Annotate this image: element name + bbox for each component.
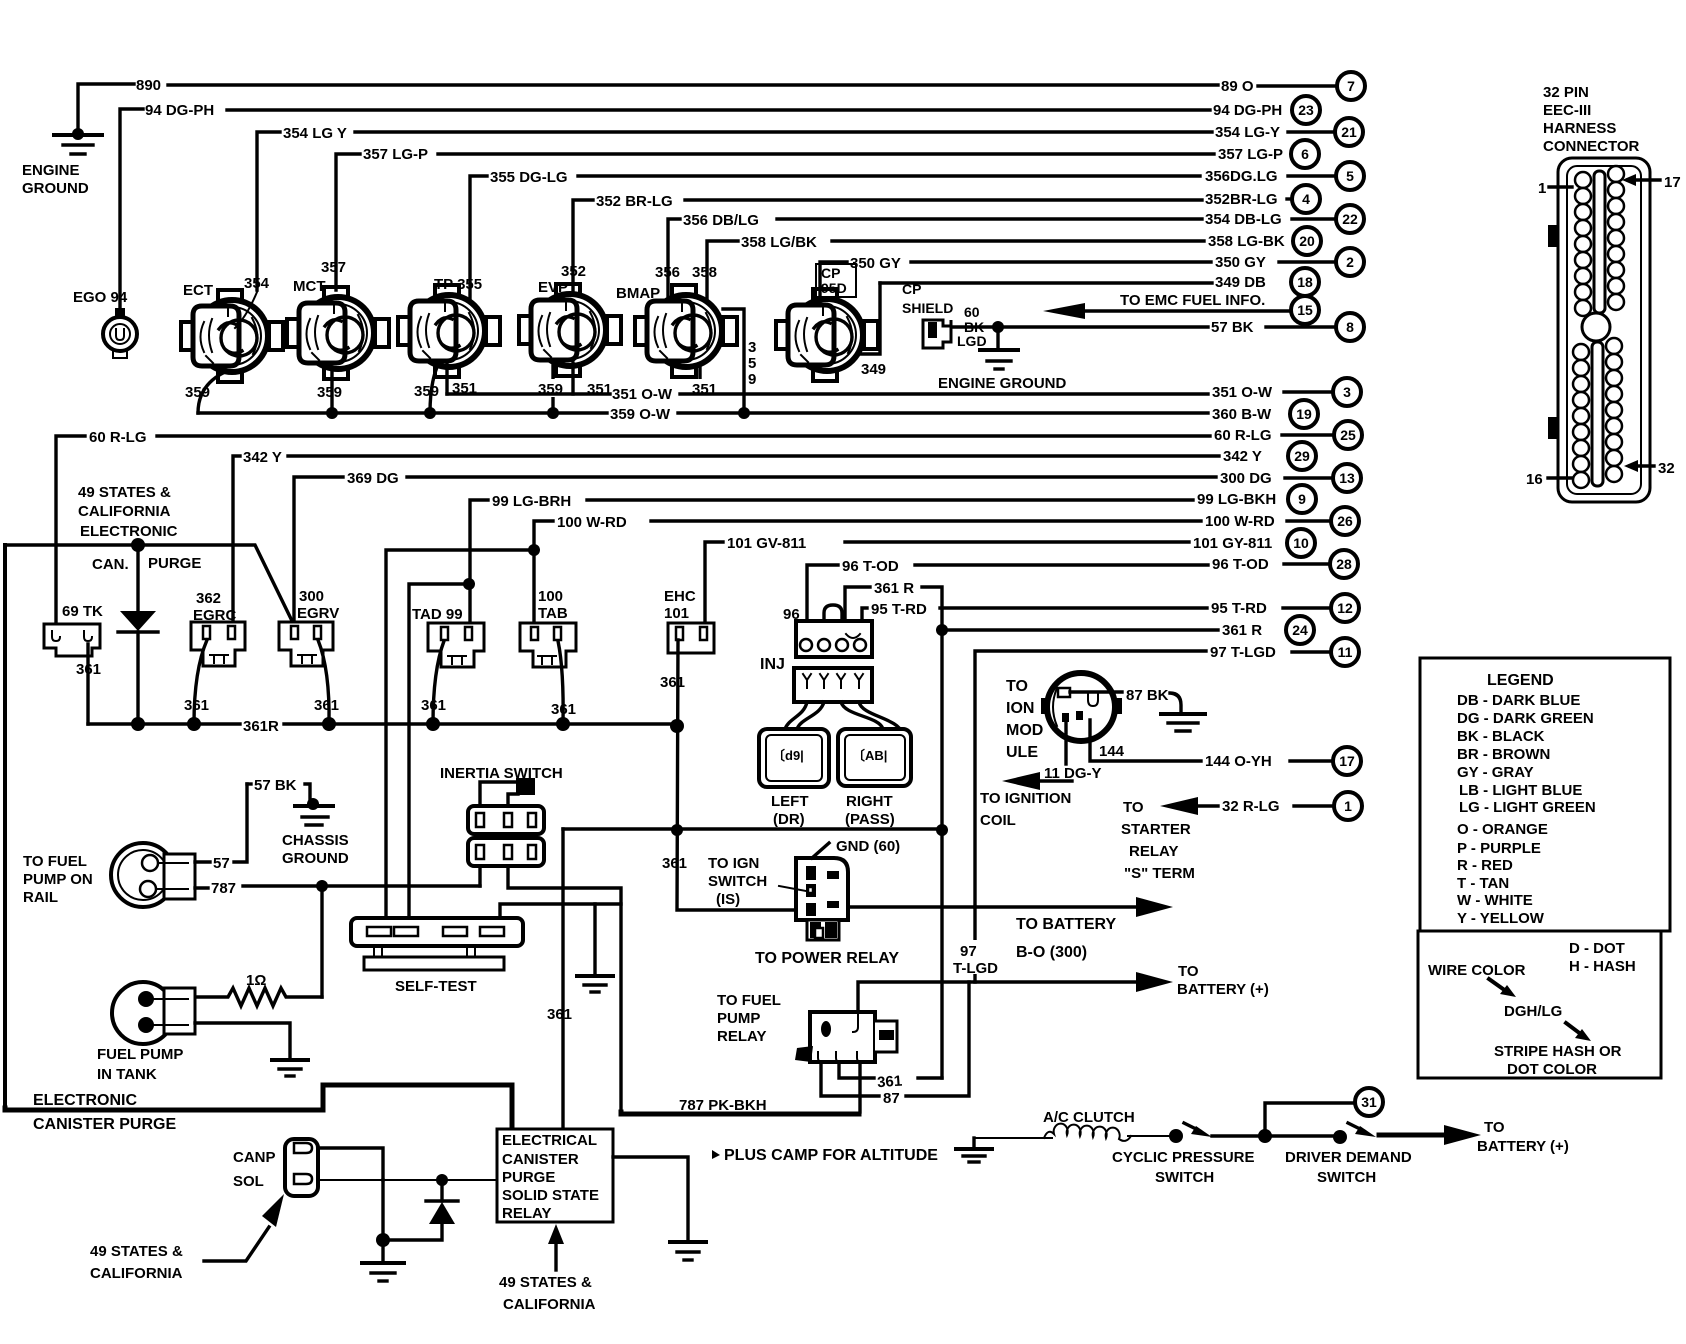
pin label 1 [1538, 180, 1572, 197]
label CAN. PURGE [92, 555, 201, 573]
connector EEC body [1548, 158, 1650, 502]
svg-text:CHASSIS: CHASSIS [282, 832, 349, 849]
label D-DOT H-HASH [1569, 940, 1636, 975]
wire inertia pin2 to 787 [508, 866, 621, 1112]
switch cyclic pressure [1128, 1123, 1258, 1143]
svg-text:〔AB|: 〔AB| [852, 748, 887, 763]
svg-text:359 O-W: 359 O-W [610, 406, 671, 423]
switch inertia upper [468, 778, 544, 834]
wire relay 87 [821, 982, 969, 1096]
ground tank [272, 1060, 308, 1076]
label TO STARTER RELAY S TERM [1121, 799, 1195, 882]
svg-text:PUMP: PUMP [717, 1010, 760, 1027]
connector TAB [520, 623, 576, 667]
wire box to ground [613, 1157, 688, 1240]
svg-text:352: 352 [561, 263, 586, 280]
svg-text:357: 357 [321, 259, 346, 276]
svg-text:352BR-LG: 352BR-LG [1205, 191, 1278, 208]
label 49 STATES CALIFORNIA bottom [499, 1274, 596, 1313]
label FUEL PUMP IN TANK [97, 1046, 183, 1083]
switch driver demand [1265, 1123, 1376, 1144]
wire 356 DB/LG [668, 219, 1202, 300]
arrow TO STARTER RELAY [1160, 797, 1218, 815]
wire 787 PK-BKH thick [621, 1112, 859, 1114]
label 300 EGRV [297, 588, 339, 622]
selftest body [351, 918, 523, 970]
svg-text:57 BK: 57 BK [1211, 319, 1254, 336]
wire EVP 359 [551, 366, 554, 413]
wire BMAP 351 [698, 368, 701, 394]
wire 101 GV-811 [705, 542, 1189, 630]
wire relay 787 [858, 1062, 861, 1112]
svg-text:EEC-III: EEC-III [1543, 102, 1591, 119]
svg-text:369 DG: 369 DG [347, 470, 399, 487]
svg-text:5: 5 [1346, 168, 1354, 184]
svg-text:(DR): (DR) [773, 811, 805, 828]
svg-text:101 GY-811: 101 GY-811 [1193, 535, 1272, 552]
svg-text:PLUS CAMP FOR ALTITUDE: PLUS CAMP FOR ALTITUDE [724, 1147, 938, 1164]
svg-text:360 B-W: 360 B-W [1212, 406, 1272, 423]
svg-text:SWITCH: SWITCH [1155, 1169, 1214, 1186]
svg-text:354 LG-Y: 354 LG-Y [1215, 124, 1280, 141]
svg-text:359: 359 [414, 383, 439, 400]
bus gnd60 [563, 824, 948, 836]
wire 787 [195, 880, 480, 997]
svg-text:361: 361 [551, 701, 576, 718]
wire ac clutch [974, 1137, 1052, 1139]
wire TAB 361 [558, 641, 563, 724]
svg-text:26: 26 [1337, 513, 1353, 529]
wire 100 W-RD [534, 521, 1201, 628]
svg-text:144: 144 [1099, 743, 1125, 760]
connector EGRV [279, 622, 333, 666]
svg-text:94 DG-PH: 94 DG-PH [1213, 102, 1282, 119]
svg-text:10: 10 [1293, 535, 1309, 551]
svg-text:60 R-LG: 60 R-LG [1214, 427, 1272, 444]
diode CANP [118, 545, 158, 724]
wire EGRV 361 [318, 640, 329, 724]
connector EEC pins upper [1575, 166, 1624, 316]
svg-text:362: 362 [196, 590, 221, 607]
svg-text:CP: CP [902, 281, 921, 297]
svg-text:361: 361 [314, 697, 339, 714]
svg-text:351 O-W: 351 O-W [612, 386, 673, 403]
svg-text:CALIFORNIA: CALIFORNIA [503, 1296, 596, 1313]
svg-text:CONNECTOR: CONNECTOR [1543, 138, 1640, 155]
svg-text:BK - BLACK: BK - BLACK [1457, 728, 1545, 745]
pin circle 31 [1355, 1088, 1383, 1116]
svg-text:"S" TERM: "S" TERM [1124, 865, 1195, 882]
svg-text:361 R: 361 R [874, 580, 914, 597]
svg-text:357 LG-P: 357 LG-P [1218, 146, 1283, 163]
svg-text:ECT: ECT [183, 282, 213, 299]
wire 69TK 361 [86, 644, 89, 724]
svg-text:EVP: EVP [538, 279, 568, 296]
svg-text:(IS): (IS) [716, 891, 740, 908]
pin label 17 [1622, 174, 1681, 191]
label DRIVER DEMAND SWITCH [1285, 1149, 1412, 1186]
connector EGRC [191, 622, 245, 666]
label CYCLIC PRESSURE SWITCH [1112, 1149, 1255, 1186]
svg-text:D - DOT: D - DOT [1569, 940, 1625, 957]
svg-text:20: 20 [1299, 233, 1315, 249]
svg-text:RELAY: RELAY [1129, 843, 1178, 860]
label STRIPE HASH OR DOT COLOR [1494, 1043, 1622, 1078]
pin row 354 DB-LG / pin 22 [1205, 205, 1364, 233]
wire 60 R-LG [56, 436, 1210, 622]
svg-text:EHC: EHC [664, 588, 696, 605]
svg-text:MCT: MCT [293, 278, 326, 295]
svg-text:358 LG/BK: 358 LG/BK [741, 234, 817, 251]
svg-text:355 DG-LG: 355 DG-LG [490, 169, 568, 186]
svg-text:TO IGNITION: TO IGNITION [980, 790, 1071, 807]
sensor EGO 94 [103, 308, 137, 358]
svg-text:3: 3 [748, 339, 756, 356]
svg-text:RIGHT: RIGHT [846, 793, 893, 810]
connector fuel rail [111, 843, 195, 907]
svg-text:95 T-RD: 95 T-RD [871, 601, 927, 618]
svg-text:361 R: 361 R [1222, 622, 1262, 639]
wire TP 351 [445, 363, 448, 394]
svg-text:ELECTRICAL: ELECTRICAL [502, 1132, 597, 1149]
arrow TO IGNITION COIL [1002, 772, 1072, 790]
wire 361 to relay box [561, 829, 564, 1128]
bus 359 O-W [198, 407, 1208, 419]
svg-text:EGRV: EGRV [297, 605, 339, 622]
svg-text:356DG.LG: 356DG.LG [1205, 168, 1278, 185]
svg-text:TO: TO [1123, 799, 1144, 816]
label EHC 101 [664, 588, 696, 622]
svg-text:49 STATES &: 49 STATES & [78, 484, 171, 501]
svg-text:6: 6 [1301, 146, 1309, 162]
svg-text:BATTERY (+): BATTERY (+) [1477, 1138, 1569, 1155]
svg-text:361: 361 [76, 661, 101, 678]
svg-text:EGO 94: EGO 94 [73, 289, 128, 306]
svg-text:TP 355: TP 355 [434, 276, 482, 293]
wire 349 DB [861, 283, 1212, 354]
label TO BATTERY right [1477, 1119, 1569, 1155]
svg-text:1: 1 [1344, 798, 1352, 814]
svg-text:89 O: 89 O [1221, 78, 1254, 95]
svg-text:358 LG-BK: 358 LG-BK [1208, 233, 1285, 250]
svg-text:CALIFORNIA: CALIFORNIA [78, 503, 171, 520]
svg-text:TO BATTERY: TO BATTERY [1016, 916, 1116, 933]
svg-text:361: 361 [421, 697, 446, 714]
svg-text:MOD: MOD [1006, 722, 1043, 739]
svg-text:GROUND: GROUND [22, 180, 89, 197]
module ION [1041, 673, 1122, 741]
pin label 16 [1526, 471, 1572, 488]
svg-text:EGRC: EGRC [193, 607, 237, 624]
svg-text:361R: 361R [243, 718, 279, 735]
connector EHC [668, 623, 714, 653]
bus 351 O-W [447, 392, 1208, 395]
label ELECTRONIC CANISTER PURGE [33, 1092, 176, 1133]
svg-text:300 DG: 300 DG [1220, 470, 1272, 487]
svg-text:CAN.: CAN. [92, 556, 129, 573]
ground box right [670, 1242, 706, 1260]
label 49 STATES CALIFORNIA ELECTRONIC [78, 484, 178, 540]
ground selftest [577, 904, 613, 992]
connector INJ bottom [794, 668, 872, 702]
svg-text:H - HASH: H - HASH [1569, 958, 1636, 975]
wire 350 GY [820, 262, 1211, 308]
switch IGN [796, 858, 848, 940]
svg-text:ULE: ULE [1006, 744, 1038, 761]
svg-text:1: 1 [1538, 180, 1546, 197]
svg-text:359: 359 [185, 384, 210, 401]
wire inj2 [797, 702, 824, 729]
svg-text:GROUND: GROUND [282, 850, 349, 867]
pin row 95 T-RD / pin 12 [1211, 594, 1359, 622]
svg-text:356: 356 [655, 264, 680, 281]
svg-text:300: 300 [299, 588, 324, 605]
svg-text:57 BK: 57 BK [254, 777, 297, 794]
svg-text:354 LG Y: 354 LG Y [283, 125, 347, 142]
svg-text:GND (60): GND (60) [836, 838, 900, 855]
sensor CP [776, 289, 878, 381]
pin row 349 DB / pin 18 [1215, 268, 1319, 296]
svg-text:O - ORANGE: O - ORANGE [1457, 821, 1548, 838]
label 32 PIN EEC-III HARNESS CONNECTOR [1543, 84, 1640, 155]
pin row 358 LG-BK / pin 20 [1208, 227, 1321, 255]
svg-text:SELF-TEST: SELF-TEST [395, 978, 477, 995]
svg-text:SOLID STATE: SOLID STATE [502, 1187, 599, 1204]
wire canister purge bus [5, 538, 294, 625]
wire TAD 361 [433, 641, 444, 724]
svg-text:29: 29 [1294, 448, 1310, 464]
connector CANP SOL [285, 1139, 318, 1196]
legend box 2 [1418, 931, 1661, 1078]
svg-text:25: 25 [1340, 427, 1356, 443]
label ENGINE GROUND [22, 162, 89, 197]
legend entries [1457, 692, 1596, 927]
svg-text:15: 15 [1297, 302, 1313, 318]
pin row 99 LG-BKH / pin 9 [1197, 485, 1316, 513]
pin row 60 R-LG / pin 25 [1214, 421, 1362, 449]
svg-text:97: 97 [960, 943, 977, 960]
injector LEFT DR [759, 729, 829, 787]
svg-text:354: 354 [244, 275, 270, 292]
svg-text:RELAY: RELAY [717, 1028, 766, 1045]
svg-text:357 LG-P: 357 LG-P [363, 146, 428, 163]
connector EEC center bar upper [1594, 171, 1605, 313]
svg-text:TAB: TAB [538, 605, 568, 622]
svg-text:352 BR-LG: 352 BR-LG [596, 193, 673, 210]
sensor MCT [287, 287, 389, 379]
svg-text:CP: CP [821, 265, 840, 281]
inductor AC CLUTCH [1044, 1124, 1131, 1141]
diode canp [383, 1180, 458, 1240]
connector EEC pins lower [1573, 338, 1622, 488]
wire 96 T-OD [807, 565, 1208, 640]
wire 354 LG Y [257, 132, 1212, 290]
svg-text:57: 57 [213, 855, 230, 872]
wire 890 [78, 84, 1218, 135]
svg-text:2: 2 [1346, 254, 1354, 270]
label TO ION MODULE [1006, 678, 1043, 761]
label 351 EVP [584, 379, 618, 398]
svg-text:CANISTER PURGE: CANISTER PURGE [33, 1116, 176, 1133]
svg-text:TO: TO [1484, 1119, 1505, 1136]
legend box [1420, 658, 1670, 931]
wire inj1 [785, 702, 807, 729]
wire 358 LG/BK [707, 241, 1204, 302]
sensor ECT [181, 290, 283, 382]
bus 361R [88, 717, 684, 733]
svg-text:P - PURPLE: P - PURPLE [1457, 840, 1541, 857]
pin row 356DG.LG / pin 5 [1205, 162, 1364, 190]
label 3 5 9 vertical [748, 339, 756, 388]
pin row 89 O / pin 7 [1221, 72, 1365, 100]
svg-text:T - TAN: T - TAN [1457, 875, 1509, 892]
svg-text:100 W-RD: 100 W-RD [1205, 513, 1275, 530]
svg-text:SOL: SOL [233, 1173, 264, 1190]
wire TP 359 [430, 367, 437, 413]
svg-text:17: 17 [1339, 753, 1355, 769]
svg-text:TO FUEL: TO FUEL [717, 992, 781, 1009]
wire 357 LG-P [336, 154, 1214, 290]
svg-text:LEFT: LEFT [771, 793, 809, 810]
svg-text:18: 18 [1297, 274, 1313, 290]
svg-text:W - WHITE: W - WHITE [1457, 892, 1533, 909]
svg-text:19: 19 [1296, 406, 1312, 422]
pin row 354 LG-Y / pin 21 [1215, 118, 1363, 146]
wire canp ground [376, 1180, 390, 1262]
svg-text:ION: ION [1006, 700, 1034, 717]
pin label 32 [1624, 460, 1675, 477]
svg-text:32 R-LG: 32 R-LG [1222, 798, 1280, 815]
svg-text:350 GY: 350 GY [1215, 254, 1266, 271]
ground chassis [295, 798, 333, 825]
svg-text:69 TK: 69 TK [62, 603, 103, 620]
svg-text:49 STATES &: 49 STATES & [499, 1274, 592, 1291]
svg-text:96 T-OD: 96 T-OD [1212, 556, 1269, 573]
connector EEC middle circle [1582, 313, 1610, 341]
wire inertia pin1 [478, 866, 481, 886]
pin row 97 T-LGD / pin 11 [1210, 638, 1359, 666]
wire to circle31 [1258, 1103, 1353, 1143]
svg-text:21: 21 [1341, 124, 1357, 140]
svg-text:144 O-YH: 144 O-YH [1205, 753, 1272, 770]
svg-text:LG - LIGHT GREEN: LG - LIGHT GREEN [1459, 799, 1596, 816]
svg-text:DG - DARK GREEN: DG - DARK GREEN [1457, 710, 1594, 727]
svg-text:ELECTRONIC: ELECTRONIC [33, 1092, 137, 1109]
svg-text:361: 361 [660, 674, 685, 691]
pin row 352BR-LG / pin 4 [1205, 185, 1320, 213]
wire 57 BK row [953, 321, 1208, 333]
svg-text:99 LG-BRH: 99 LG-BRH [492, 493, 571, 510]
label 351 BMAP [689, 379, 723, 398]
svg-text:351 O-W: 351 O-W [1212, 384, 1273, 401]
pin row 32 R-LG / pin 1 [1222, 792, 1362, 820]
label TO IGNITION COIL [980, 790, 1071, 829]
svg-text:ENGINE GROUND: ENGINE GROUND [938, 375, 1067, 392]
wire 97 vertical lower [973, 907, 976, 982]
svg-text:349: 349 [861, 361, 886, 378]
svg-text:5: 5 [748, 355, 756, 372]
svg-text:ENGINE: ENGINE [22, 162, 80, 179]
pin row 94 DG-PH / pin 23 [1213, 96, 1320, 124]
arrow 49 states left [204, 1194, 284, 1261]
label 100 TAB [538, 588, 568, 622]
pin row 360 B-W / pin 19 [1212, 400, 1318, 428]
svg-text:CYCLIC PRESSURE: CYCLIC PRESSURE [1112, 1149, 1255, 1166]
svg-text:TO EMC FUEL INFO.: TO EMC FUEL INFO. [1120, 292, 1265, 309]
svg-text:ELECTRONIC: ELECTRONIC [80, 523, 178, 540]
ground ion [1161, 714, 1205, 731]
wire BMAP 359 [723, 309, 744, 413]
arrow wire color [1489, 979, 1516, 997]
svg-text:PURGE: PURGE [502, 1169, 555, 1186]
svg-text:96 T-OD: 96 T-OD [842, 558, 899, 575]
svg-text:99 LG-BKH: 99 LG-BKH [1197, 491, 1276, 508]
wire ECT pin354 [235, 292, 257, 328]
wire relay 361 [839, 630, 942, 1078]
wire inj3 [841, 702, 883, 729]
wire EGRC 361 [194, 640, 207, 724]
svg-text:23: 23 [1298, 102, 1314, 118]
svg-text:361: 361 [547, 1006, 572, 1023]
svg-text:356 DB/LG: 356 DB/LG [683, 212, 759, 229]
label CP SHIELD 60 BK LGD [902, 281, 987, 349]
svg-text:9: 9 [748, 371, 756, 388]
svg-text:INERTIA SWITCH: INERTIA SWITCH [440, 765, 563, 782]
label RIGHT PASS [845, 793, 895, 828]
connector TAD [428, 623, 484, 667]
svg-text:12: 12 [1337, 600, 1353, 616]
svg-text:DOT COLOR: DOT COLOR [1507, 1061, 1597, 1078]
label TO BATTERY plus [1177, 963, 1269, 998]
svg-text:11: 11 [1338, 644, 1353, 660]
label TO IGN SWITCH IS [708, 855, 767, 908]
svg-text:B-O (300): B-O (300) [1016, 944, 1087, 961]
svg-text:101: 101 [664, 605, 689, 622]
svg-text:CALIFORNIA: CALIFORNIA [90, 1265, 183, 1282]
svg-text:787 PK-BKH: 787 PK-BKH [679, 1097, 767, 1114]
svg-text:INJ: INJ [760, 656, 785, 673]
svg-text:GY - GRAY: GY - GRAY [1457, 764, 1534, 781]
wire canp top [318, 1148, 383, 1180]
svg-text:DGH/LG: DGH/LG [1504, 1003, 1562, 1020]
wire to battery right [1379, 1125, 1481, 1145]
ground engine [54, 128, 102, 154]
svg-text:4: 4 [1302, 191, 1310, 207]
sensor TP [398, 285, 500, 377]
pin row 357 LG-P / pin 6 [1218, 140, 1319, 168]
svg-text:IN TANK: IN TANK [97, 1066, 157, 1083]
pin row 101 GY-811 / pin 10 [1193, 529, 1315, 557]
svg-text:RAIL: RAIL [23, 889, 58, 906]
wire 100WRD junction [386, 544, 540, 920]
arrow 49 states up [548, 1224, 564, 1270]
label LEFT DR [771, 793, 809, 828]
svg-text:BR - BROWN: BR - BROWN [1457, 746, 1550, 763]
svg-text:97 T-LGD: 97 T-LGD [1210, 644, 1276, 661]
label 359 EVP [536, 379, 570, 398]
border left vertical [3, 545, 7, 1108]
wire ECT 359 [198, 372, 225, 413]
svg-text:31: 31 [1361, 1094, 1377, 1110]
svg-text:24: 24 [1292, 622, 1308, 638]
wire tank ground [195, 1023, 290, 1058]
pointer ign switch [779, 886, 806, 891]
wire ign to battery [848, 897, 1173, 917]
border canister purge bottom [5, 1085, 512, 1127]
svg-text:350 GY: 350 GY [850, 255, 901, 272]
label CP 95D boxed [816, 264, 856, 297]
svg-text:32: 32 [1658, 460, 1675, 477]
